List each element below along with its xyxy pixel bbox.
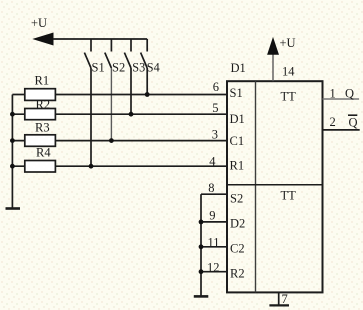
svg-text:R4: R4 bbox=[36, 146, 51, 160]
junction bracket-pin11 bbox=[199, 244, 204, 249]
wire +U rail bbox=[53, 38, 147, 40]
wire left bus vertical bbox=[11, 95, 13, 209]
switch S2 bbox=[105, 39, 125, 75]
svg-text:C1: C1 bbox=[230, 134, 245, 148]
svg-text:TT: TT bbox=[281, 90, 297, 104]
svg-text:S2: S2 bbox=[230, 191, 243, 205]
junction bracket-pin12 bbox=[199, 269, 204, 274]
ground (pin 7) bbox=[269, 304, 289, 306]
wire pin 1 output Q bbox=[323, 98, 360, 100]
ground (left bus) bbox=[6, 207, 21, 210]
svg-text:+U: +U bbox=[280, 36, 296, 50]
wire pin 9 stub bbox=[201, 221, 227, 223]
svg-text:S1: S1 bbox=[92, 61, 105, 75]
wire pin 8 stub bbox=[201, 193, 227, 195]
svg-text:D1: D1 bbox=[230, 112, 245, 126]
ground (pins 8-12 bracket) bbox=[194, 295, 209, 298]
svg-text:14: 14 bbox=[282, 64, 295, 78]
switch S3 bbox=[124, 39, 145, 75]
resistor R3 bbox=[25, 121, 56, 147]
wire pin 14 supply bbox=[272, 54, 274, 81]
svg-text:TT: TT bbox=[281, 189, 297, 203]
resistor R1 bbox=[25, 74, 56, 101]
IC U1 divider horizontal bbox=[227, 184, 323, 186]
IC U1 inner divider vertical bbox=[255, 81, 257, 292]
svg-text:+U: +U bbox=[31, 16, 47, 30]
junction bracket-pin9 bbox=[199, 220, 204, 225]
svg-text:R1: R1 bbox=[35, 74, 50, 88]
switch S4 bbox=[141, 39, 160, 75]
svg-text:1: 1 bbox=[330, 87, 336, 101]
svg-text:6: 6 bbox=[213, 80, 219, 94]
wire S2 to node row3 bbox=[110, 68, 112, 141]
svg-text:S1: S1 bbox=[230, 86, 243, 100]
junction S3-row2 bbox=[129, 112, 134, 117]
wire S1 to node R1-row4 bbox=[90, 68, 92, 166]
arrow +U supply (left-pointing) bbox=[34, 33, 53, 45]
junction bus-row3 bbox=[10, 138, 15, 143]
resistor R4 bbox=[25, 146, 56, 173]
svg-text:7: 7 bbox=[282, 292, 288, 306]
svg-text:Q: Q bbox=[349, 116, 358, 130]
junction S4-row1 bbox=[145, 92, 150, 97]
svg-text:R1: R1 bbox=[230, 158, 245, 172]
wire S3 to node row2 bbox=[130, 68, 132, 114]
wire pin 2 output Q-bar bbox=[323, 129, 360, 131]
svg-text:C2: C2 bbox=[230, 242, 245, 256]
overbar of Q-bar bbox=[348, 114, 357, 116]
wire bracket vertical (pins 8-12 to ground) bbox=[200, 194, 202, 296]
svg-text:Q: Q bbox=[345, 87, 354, 101]
wire row2 (pin 5 net) bbox=[12, 113, 227, 115]
svg-text:2: 2 bbox=[330, 115, 336, 129]
wire pin 12 stub bbox=[201, 271, 227, 273]
svg-text:D2: D2 bbox=[230, 217, 245, 231]
svg-text:5: 5 bbox=[212, 101, 218, 115]
svg-text:S3: S3 bbox=[132, 61, 145, 75]
wire S4 to node row1 bbox=[146, 68, 148, 95]
arrow +U supply (pin 14, up-pointing) bbox=[268, 39, 279, 55]
wire pin 11 stub bbox=[201, 246, 227, 248]
switch S1 bbox=[84, 39, 104, 75]
junction bus-row2 bbox=[10, 112, 15, 117]
wire row3 (pin 3 net) bbox=[12, 140, 227, 142]
svg-text:R2: R2 bbox=[230, 267, 245, 281]
junction S1-row4 bbox=[89, 164, 94, 169]
svg-text:D1: D1 bbox=[231, 61, 246, 75]
wire pin 7 to ground bbox=[278, 292, 280, 305]
svg-text:R3: R3 bbox=[35, 121, 50, 135]
wire row4 (pin 4 net) bbox=[12, 165, 227, 167]
IC U1 outer box bbox=[227, 81, 323, 292]
resistor R2 bbox=[25, 98, 56, 120]
svg-text:9: 9 bbox=[209, 209, 215, 223]
wire row1 (pin 6 net) bbox=[12, 94, 227, 96]
svg-text:R2: R2 bbox=[36, 98, 51, 112]
junction bus-row4 bbox=[10, 164, 15, 169]
svg-text:8: 8 bbox=[208, 181, 214, 195]
junction S2-row3 bbox=[109, 138, 114, 143]
svg-text:3: 3 bbox=[212, 127, 218, 141]
svg-text:S2: S2 bbox=[112, 61, 125, 75]
svg-text:S4: S4 bbox=[147, 61, 160, 75]
svg-text:4: 4 bbox=[209, 155, 216, 169]
